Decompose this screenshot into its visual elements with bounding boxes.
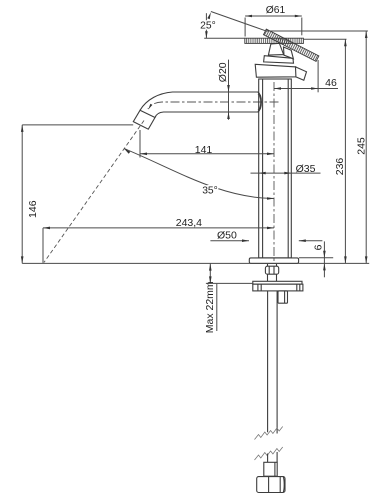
dim 146 line <box>21 125 23 264</box>
spout axis center line <box>148 102 279 109</box>
dim D35 right arrow <box>284 172 291 175</box>
dim 25deg top arrow <box>207 12 211 19</box>
dim D61 ext right <box>301 18 303 36</box>
spout outlet end piece <box>133 110 155 129</box>
shank ring facets <box>269 266 274 274</box>
handle hub piece <box>284 47 294 59</box>
flow arrow on axis <box>148 104 152 110</box>
dim 25deg slanted line <box>211 12 266 31</box>
break zigzag lower left <box>255 447 283 460</box>
dim 6 ext <box>299 257 333 259</box>
shank ring <box>265 266 278 274</box>
lock nut facet <box>284 291 286 303</box>
washer plate 1 <box>253 281 302 284</box>
spout joint fillet upper <box>258 92 262 112</box>
dim 46 ext <box>317 60 319 92</box>
label Max22 underline <box>216 284 218 331</box>
dim Max22 bottom arrow <box>209 276 212 283</box>
dim 46 left arrow <box>274 87 281 90</box>
dim 25deg vertical line <box>205 13 207 38</box>
dim 46 line <box>274 88 338 90</box>
dim D20 bottom arrow <box>227 112 230 119</box>
countertop line <box>22 262 369 264</box>
hose fitting inner line <box>274 462 276 476</box>
break zigzag upper left <box>255 427 283 440</box>
svg-text:Ø20: Ø20 <box>217 62 229 82</box>
dim 236 ext <box>304 38 347 40</box>
dim 35deg left arrow <box>124 149 130 154</box>
dim D35 left arrow <box>259 172 266 175</box>
dim 243,4 line <box>43 227 274 229</box>
dim 243,4 right arrow <box>267 227 274 230</box>
dim Max22 line <box>209 264 211 284</box>
dim D20 line <box>228 60 230 120</box>
svg-text:6: 6 <box>312 244 324 250</box>
dim 245 ext <box>267 30 368 32</box>
body column <box>259 79 292 258</box>
svg-text:46: 46 <box>325 77 337 89</box>
dim 35deg right arrow <box>267 197 274 200</box>
base plate <box>249 258 298 264</box>
handle bar A (horizontal knurled) <box>245 38 304 43</box>
spout joint fillet lower <box>258 94 261 111</box>
svg-text:35°: 35° <box>202 186 218 197</box>
supply pipe upper right line <box>276 291 278 434</box>
hex nut facets <box>269 477 285 493</box>
washer plate 2 <box>253 284 303 291</box>
dim D50 line left <box>210 240 249 242</box>
dim 6 top arrow <box>323 251 326 258</box>
handle bar B (tilted knurled) <box>263 29 318 61</box>
dim 236 line <box>344 39 346 263</box>
dim 6 bottom arrow <box>323 263 326 270</box>
dim D50 left arrow <box>242 239 249 242</box>
svg-text:243,4: 243,4 <box>176 217 202 229</box>
bonnet right jut <box>296 67 307 80</box>
dim D61 left arrow <box>245 15 252 18</box>
dim 146 ext <box>22 124 133 126</box>
lock nut block <box>278 291 288 303</box>
dim Max22 top arrow <box>209 264 212 271</box>
dim 243,4 left arrow <box>43 227 50 230</box>
spout tube bottom edge <box>155 112 258 118</box>
supply pipe lower left line <box>267 454 269 463</box>
dim D61 line <box>245 15 302 17</box>
supply pipe lower right line <box>276 452 278 462</box>
dim 25deg horizontal ref line <box>204 37 245 39</box>
svg-text:245: 245 <box>356 137 368 155</box>
dim 236 top arrow <box>344 39 347 46</box>
dim 245 top arrow <box>365 31 368 38</box>
svg-text:Ø50: Ø50 <box>217 230 237 242</box>
dim 243,4 ext <box>42 228 44 263</box>
dim 46 right arrow <box>311 87 318 90</box>
supply pipe upper left line <box>267 291 269 432</box>
svg-text:Ø61: Ø61 <box>266 5 286 16</box>
hose fitting <box>264 462 277 476</box>
spout tube top edge <box>140 92 258 110</box>
dim D50 line right <box>299 240 323 242</box>
dim D20 top arrow <box>227 85 230 92</box>
dim 141 ext <box>139 130 141 158</box>
svg-text:Ø35: Ø35 <box>296 163 316 175</box>
dim 6 line <box>323 241 325 277</box>
dim 141 left arrow <box>140 153 147 156</box>
dim 25deg bottom arrow <box>205 31 208 38</box>
dim 146 bottom arrow <box>21 256 24 263</box>
svg-text:25°: 25° <box>200 21 216 32</box>
dim D61 ext left <box>244 18 246 37</box>
body inner highlight line right <box>287 79 289 258</box>
svg-text:141: 141 <box>195 144 213 156</box>
dim D50 right arrow <box>299 239 306 242</box>
svg-text:Max 22mm: Max 22mm <box>204 281 216 333</box>
body inner highlight line left <box>262 79 264 258</box>
water stream dashed line <box>44 121 144 263</box>
dim 146 top arrow <box>21 125 24 132</box>
dim D61 right arrow <box>295 15 302 18</box>
handle stem <box>268 43 283 55</box>
washer plate 2 facets <box>258 284 300 291</box>
shank below base <box>268 263 277 281</box>
svg-text:146: 146 <box>27 200 39 218</box>
body center line <box>273 82 275 263</box>
dim 236 bottom arrow <box>344 256 347 263</box>
dim 245 line <box>365 31 367 263</box>
dim D35 line <box>251 172 321 174</box>
dim 141 right arrow <box>267 153 274 156</box>
svg-text:236: 236 <box>334 158 346 176</box>
dim 245 bottom arrow <box>365 256 368 263</box>
bonnet main <box>255 64 297 77</box>
hex nut <box>257 477 285 493</box>
dim 141 line <box>140 153 274 155</box>
bonnet collar <box>264 56 294 64</box>
dim Max22 ext <box>206 282 254 284</box>
dim 35deg arc <box>124 149 274 199</box>
